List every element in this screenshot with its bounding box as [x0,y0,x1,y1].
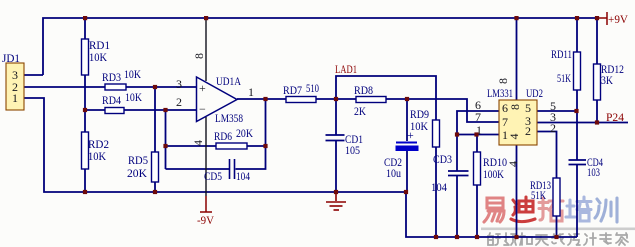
wire RD10 top [476,135,478,153]
svg-text:103: 103 [587,165,600,179]
svg-text:7: 7 [475,110,481,124]
svg-text:UD2: UD2 [526,86,543,100]
svg-text:RD7: RD7 [283,83,302,97]
svg-text:20K: 20K [236,126,253,140]
svg-text:100K: 100K [483,167,504,181]
svg-text:10K: 10K [125,90,142,104]
svg-text:2: 2 [550,121,556,135]
wire JD1 pin2 to RD3 [24,86,105,88]
wire RD12 top [596,18,598,64]
wire feedback top branch [166,145,217,147]
wire pin1 line [457,134,499,136]
resistor RD1 [82,38,111,75]
junction RD13 bottom / ground rail [554,235,558,239]
svg-text:3: 3 [176,77,182,91]
capacitor CD3 [431,152,469,194]
op-amp U1A pin4 wire [205,117,207,196]
wire RD11 bottom through CD4 [576,90,578,160]
wire ground rail drop right [406,192,577,237]
wire RD5 bottom [154,182,156,192]
junction UD2 pin1-pin6 / CD3 [455,132,459,136]
svg-text:5: 5 [525,101,531,115]
svg-text:P24: P24 [606,110,624,124]
resistor RD5 [127,152,159,182]
junction RD9 bottom / ground rail [434,235,438,239]
junction RD2 bottom / ground rail [83,190,87,194]
watermark logo 易迪拓培训 [481,197,635,245]
svg-text:+9V: +9V [608,12,628,26]
svg-text:RD6: RD6 [214,129,232,143]
svg-text:51K: 51K [531,188,546,202]
junction RD11 top / +9V rail [575,16,579,20]
wire CD3 top [456,135,458,172]
svg-text:10u: 10u [386,166,401,180]
resistor RD6 [214,126,253,149]
resistor RD3 [102,67,141,90]
capacitor CD4 [569,155,604,179]
op-amp U1A [176,53,254,146]
wire RD4 to op-amp - [124,109,196,111]
junction RD12 bottom / P24 line [595,120,599,124]
wire pin3 to P24 [537,122,628,124]
svg-text:RD11: RD11 [551,47,572,61]
svg-text:LM358: LM358 [215,111,243,125]
junction RD12 top / +9V rail [595,16,599,20]
svg-text:+: + [199,81,206,95]
svg-text:51K: 51K [557,71,571,85]
resistor RD8 [354,83,386,118]
wire node3 down to RD5 [154,87,156,152]
svg-text:LAD1: LAD1 [335,62,357,76]
wire CD1 top [335,99,337,135]
resistor RD13 [530,178,560,216]
capacitor CD5 [204,159,250,183]
junction RD1-RD2 divider / RD4 in [83,108,87,112]
junction RD5 bottom / ground rail [153,190,157,194]
junction feedback right [263,144,267,148]
wire CD3 bottom [456,176,458,238]
junction op-amp pin8 / +9V rail [204,16,208,20]
svg-text:-9V: -9V [197,213,214,227]
junction RD3 out / RD5 top [153,85,157,89]
wire top +9V rail [43,18,597,75]
junction UD2 pin8 / +9V rail [514,16,518,20]
wire inverting node down to feedback [165,110,167,169]
watermark divider rule [481,228,635,231]
junction node LAD1 [334,97,338,101]
wire LAD1 node up and over to RD9 [336,76,436,120]
wire UD2 pin8 up [516,18,518,100]
junction feedback left [163,144,167,148]
svg-text:JD1: JD1 [2,51,20,65]
junction RD10 bottom / ground rail [475,235,479,239]
junction CD2 bottom / ground rail [404,190,408,194]
wire pin6 [457,111,499,135]
wire feedback lower branch right [236,99,266,169]
junction UD2 pin1 / RD10 top [474,132,478,136]
wire CD2 bottom [406,151,408,192]
svg-text:105: 105 [345,143,360,157]
svg-text:8: 8 [192,53,206,59]
svg-text:1: 1 [248,85,254,99]
capacitor CD1 [326,132,364,157]
svg-text:RD4: RD4 [102,93,121,107]
IC U2 LM331 [475,78,556,167]
wire RD10 bottom [476,185,478,237]
wire UD2 pin4 down [516,145,518,237]
svg-text:510: 510 [306,81,319,95]
wire RD12 bottom to P24 line [596,100,598,123]
svg-text:7: 7 [502,115,508,129]
svg-text:LM331: LM331 [487,86,513,100]
svg-text:UD1A: UD1A [216,74,241,88]
wire pin5 to RD11 branch [537,110,577,112]
wire RD3 to op-amp + [126,86,196,88]
resistor RD2 [82,132,110,169]
wire RD9 bottom [435,147,437,237]
junction RD4 out / feedback [163,108,167,112]
svg-text:104: 104 [431,180,447,194]
junction UD2 pin4 / ground rail [514,235,518,239]
wire RD1 top [84,18,86,39]
resistor RD12 [594,62,625,100]
connector JD1 [2,51,24,110]
ground [326,192,346,210]
wire pin2 to RD13 [537,132,557,179]
svg-text:2: 2 [176,95,182,109]
wire CD4 bottom [576,165,578,238]
op-amp U1A pin8 wire [205,18,207,81]
junction RD8 out / CD2 top [405,97,409,101]
junction CD3 bottom / ground rail [455,235,459,239]
capacitor CD2 electrolytic [384,128,419,180]
svg-text:−: − [199,102,206,116]
wire feedback lower branch left [166,168,230,170]
svg-text:8: 8 [496,78,510,84]
svg-text:3K: 3K [601,73,613,87]
resistor RD7 [283,81,319,103]
svg-text:CD3: CD3 [433,152,452,166]
svg-text:1: 1 [12,91,18,105]
svg-text:8: 8 [508,104,522,110]
resistor RD9 [410,107,440,147]
power -9V symbol [200,196,212,212]
svg-text:20K: 20K [127,166,147,180]
power +9V symbol [597,12,607,25]
wire RD4 node to RD4 [85,109,105,111]
junction UD2 pin5 / RD11 bottom [574,109,578,113]
svg-text:4: 4 [191,140,205,146]
svg-text:RD3: RD3 [102,70,121,84]
resistor RD10 [474,152,508,185]
wire CD1 bottom to ground rail [335,140,337,192]
svg-text:2K: 2K [354,104,366,118]
wire CD2 top [406,99,408,141]
svg-text:10K: 10K [124,67,141,81]
wire RD11 top [576,18,578,52]
wire RD6 right to output branch [247,145,266,147]
junction op-amp output / feedback [263,97,267,101]
wire RD13 bottom [556,216,558,237]
wire RD1 bottom to RD2 top [84,75,86,132]
svg-text:104: 104 [236,169,250,183]
svg-text:RD5: RD5 [128,153,148,167]
svg-text:10K: 10K [89,50,107,64]
svg-text:10K: 10K [410,119,428,133]
svg-text:4: 4 [507,134,521,140]
svg-text:CD5: CD5 [204,169,222,183]
svg-text:4: 4 [506,161,520,167]
svg-text:10K: 10K [88,149,106,163]
wire op-amp output [237,98,286,100]
svg-text:RD8: RD8 [354,83,373,97]
wire RD7 to RD8 [316,98,356,100]
junction CD1 bottom / ground [334,190,338,194]
resistor RD11 [551,47,581,90]
wire JD1 pin1 down to ground rail [24,98,406,192]
wire RD2 bottom [84,169,86,192]
svg-text:2: 2 [525,124,531,138]
junction RD1 top / +9V rail [83,16,87,20]
wire RD8 to pin7 corner [386,99,499,122]
watermark slogan 射频和天线设计专家 [488,233,628,245]
resistor RD4 [102,90,142,114]
wire JD1 pin3 stub [24,74,43,76]
